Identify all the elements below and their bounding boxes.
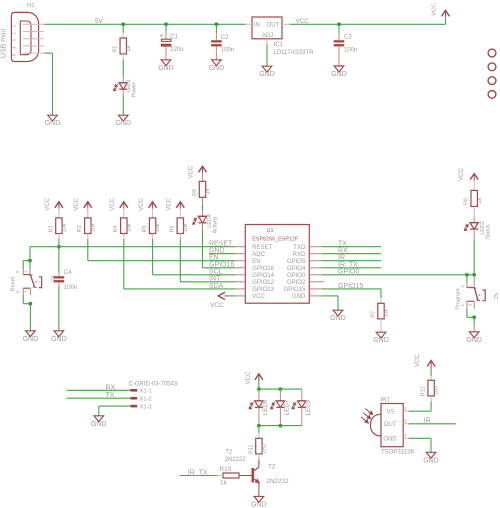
svg-text:VCC: VCC [246,371,252,384]
svg-text:2N2222: 2N2222 [266,478,289,485]
svg-text:10k: 10k [90,223,96,232]
svg-text:GND: GND [292,294,306,300]
svg-text:GPIO5: GPIO5 [287,259,306,265]
svg-text:RX: RX [338,248,348,255]
svg-text:T2: T2 [225,449,233,455]
svg-text:1k: 1k [205,188,211,194]
svg-text:VCC: VCC [45,197,51,210]
svg-text:R1: R1 [113,46,119,53]
svg-text:2: 2 [12,32,17,35]
svg-text:IR: IR [338,255,345,262]
svg-text:GND: GND [330,315,346,322]
svg-text:RESET: RESET [209,241,233,248]
svg-text:IR1: IR1 [381,397,391,403]
svg-text:4: 4 [12,46,17,49]
svg-text:VCC: VCC [459,168,465,181]
svg-text:Power: Power [132,82,138,97]
svg-text:GPIO14: GPIO14 [252,273,274,279]
svg-text:Status: Status [485,224,491,240]
svg-text:VCC: VCC [139,197,145,210]
svg-text:RESET: RESET [252,245,272,251]
svg-text:C2: C2 [221,35,229,41]
svg-text:GND: GND [51,336,67,343]
svg-text:IR_TX: IR_TX [188,469,208,476]
svg-text:TX: TX [338,241,347,248]
svg-text:IR_TX: IR_TX [338,262,358,269]
svg-text:10k: 10k [384,309,390,318]
svg-text:1k: 1k [477,197,483,203]
svg-text:10k: 10k [155,223,161,232]
svg-text:GND: GND [373,337,389,344]
svg-text:IR: IR [424,418,431,425]
svg-text:ADC: ADC [252,252,265,258]
svg-text:GND: GND [158,65,174,72]
svg-text:R4: R4 [113,225,119,232]
svg-text:R10: R10 [220,466,232,473]
svg-text:100n: 100n [221,47,234,53]
svg-text:GND: GND [91,421,107,428]
svg-text:INT: INT [209,276,221,283]
svg-text:VCC: VCC [415,354,421,367]
svg-text:Activity: Activity [213,216,219,233]
svg-text:10k: 10k [183,223,189,232]
svg-text:C-GRID-03-70543: C-GRID-03-70543 [129,381,178,387]
svg-text:2: 2 [404,406,407,411]
svg-text:GPIO15: GPIO15 [338,283,363,290]
svg-text:GPIO13: GPIO13 [252,287,274,293]
svg-text:U1: U1 [267,228,274,234]
svg-text:TXD: TXD [293,245,306,251]
svg-text:IC1: IC1 [274,42,284,48]
svg-text:X1-2: X1-2 [140,397,152,403]
svg-text:ADJ: ADJ [262,33,273,39]
svg-text:ESP8266_ESP12F: ESP8266_ESP12F [252,236,299,242]
svg-text:VCC: VCC [210,302,224,309]
svg-text:GND: GND [331,71,347,78]
svg-text:10k: 10k [126,223,132,232]
svg-text:100n: 100n [64,285,77,291]
svg-text:GND: GND [209,248,225,255]
svg-text:SDA: SDA [209,283,224,290]
svg-text:3: 3 [404,419,407,424]
svg-text:IN: IN [254,23,260,29]
svg-text:Reset: Reset [10,276,16,291]
svg-text:EN: EN [252,259,260,265]
svg-text:GND: GND [115,120,131,127]
svg-text:VCC: VCC [189,165,195,178]
svg-text:LED7: LED7 [284,399,291,415]
svg-text:R5: R5 [142,225,148,232]
svg-text:C3: C3 [344,34,352,40]
svg-text:GND: GND [423,457,439,464]
svg-text:VCC: VCC [167,197,173,210]
svg-text:2R2: 2R2 [262,443,268,453]
svg-text:H1: H1 [27,3,35,9]
svg-text:5: 5 [12,53,17,56]
svg-text:RX: RX [106,384,116,391]
svg-text:C1: C1 [170,34,178,40]
svg-text:GND: GND [383,437,397,443]
svg-text:TSOP31238: TSOP31238 [381,449,415,455]
svg-text:GPIO15: GPIO15 [284,287,306,293]
svg-text:GPIO12: GPIO12 [252,280,274,286]
svg-text:VS: VS [387,410,395,416]
svg-text:OUT: OUT [384,422,397,428]
svg-text:T2: T2 [268,463,276,470]
svg-text:1k: 1k [220,480,228,487]
svg-text:VCC: VCC [110,197,116,210]
svg-text:GND: GND [209,65,225,72]
svg-text:C4: C4 [64,270,72,276]
svg-text:R2: R2 [48,225,54,232]
svg-text:GPIO0: GPIO0 [287,273,306,279]
svg-text:VCC: VCC [432,3,438,15]
svg-text:OUT: OUT [267,23,280,29]
svg-text:GND: GND [466,337,482,344]
svg-text:100: 100 [434,386,440,395]
svg-text:2N2222: 2N2222 [225,457,247,463]
svg-text:R7: R7 [370,311,376,318]
svg-text:1k: 1k [126,45,132,51]
svg-text:GND: GND [259,71,275,78]
svg-text:100n: 100n [344,47,357,53]
svg-text:3: 3 [12,39,17,42]
svg-text:GPIO16: GPIO16 [252,266,274,272]
svg-text:Program: Program [455,288,461,310]
svg-text:R11: R11 [248,445,254,455]
svg-text:USB mini: USB mini [1,28,8,58]
svg-text:R12: R12 [421,386,427,396]
svg-text:GND: GND [251,501,267,508]
svg-text:5V: 5V [95,18,103,25]
svg-text:GPIO0: GPIO0 [338,269,360,276]
svg-text:VCC: VCC [74,197,80,210]
svg-text:GPIO2: GPIO2 [287,280,306,286]
svg-text:RXD: RXD [293,252,306,258]
svg-text:SCL: SCL [209,269,223,276]
svg-text:X1-3: X1-3 [140,404,152,410]
svg-text:VCC: VCC [252,294,265,300]
svg-text:GND: GND [23,336,39,343]
svg-text:220u: 220u [170,47,183,53]
svg-text:LED6: LED6 [262,399,269,415]
svg-text:GPIO16: GPIO16 [209,262,234,269]
svg-text:GND: GND [45,120,61,127]
svg-text:10k: 10k [62,223,68,232]
svg-text:R3: R3 [77,225,83,232]
svg-text:1: 1 [12,24,17,27]
svg-text:LED5: LED5 [305,399,312,415]
svg-text:X1-1: X1-1 [140,389,152,395]
svg-text:EN: EN [209,255,219,262]
svg-text:1: 1 [404,433,407,438]
svg-text:GPIO4: GPIO4 [287,266,306,272]
svg-text:R8: R8 [464,198,470,205]
svg-text:R6: R6 [170,225,176,232]
svg-text:LD117AS33TR: LD117AS33TR [274,50,315,56]
svg-text:TX: TX [106,392,115,399]
svg-text:R9: R9 [192,189,198,196]
svg-text:S2: S2 [492,293,498,299]
